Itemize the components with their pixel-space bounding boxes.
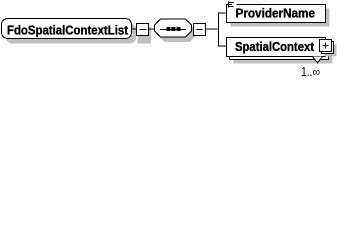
element SpatialContext box bbox=[227, 38, 326, 57]
multiplicity notch (down arrow) bbox=[313, 57, 323, 63]
element SpatialContext shadow bbox=[234, 45, 333, 64]
element ProviderName shadow bbox=[231, 9, 330, 27]
sequence compositor shadow bbox=[159, 24, 196, 42]
element FdoSpatialContextList box bbox=[2, 19, 132, 39]
collapse box (minus) of FdoSpatialContextList bbox=[137, 24, 149, 36]
element ProviderName box bbox=[227, 5, 326, 23]
minus sign bbox=[197, 29, 203, 31]
collapse box (minus) of FdoSpatialContextList : shadow bbox=[138, 27, 152, 44]
svg-text:FdoSpatialContextList: FdoSpatialContextList bbox=[7, 23, 129, 38]
wire box to collapse handle bbox=[132, 28, 138, 30]
element SpatialContext repeat box (back copy) bbox=[230, 41, 329, 60]
minus sign bbox=[140, 29, 147, 31]
wire sequence to branch bbox=[206, 28, 219, 30]
collapse box (minus) of sequence bbox=[194, 24, 206, 36]
sequence inner line bbox=[160, 29, 186, 31]
wire collapse handle to sequence bbox=[149, 28, 156, 30]
sequence dot 3 bbox=[177, 27, 181, 31]
svg-text:1..∞: 1..∞ bbox=[301, 65, 320, 79]
expand box (plus) back copy bbox=[322, 42, 334, 54]
branch vertical line bbox=[218, 13, 220, 47]
plus sign bbox=[323, 45, 329, 47]
branch to SpatialContext bbox=[219, 45, 228, 47]
svg-text:ProviderName: ProviderName bbox=[236, 6, 316, 21]
expand box (plus) bbox=[320, 40, 332, 52]
sequence dot 2 bbox=[172, 27, 176, 31]
sequence dot 1 bbox=[167, 27, 171, 31]
expand box (plus) shadow bbox=[325, 45, 337, 57]
text-content icon backdrop bbox=[228, 0, 237, 8]
element FdoSpatialContextList shadow bbox=[6, 24, 136, 44]
branch to ProviderName bbox=[219, 12, 228, 14]
svg-text:SpatialContext: SpatialContext bbox=[235, 39, 315, 54]
text-content icon bbox=[229, 2, 235, 8]
sequence compositor octagon bbox=[155, 19, 192, 37]
